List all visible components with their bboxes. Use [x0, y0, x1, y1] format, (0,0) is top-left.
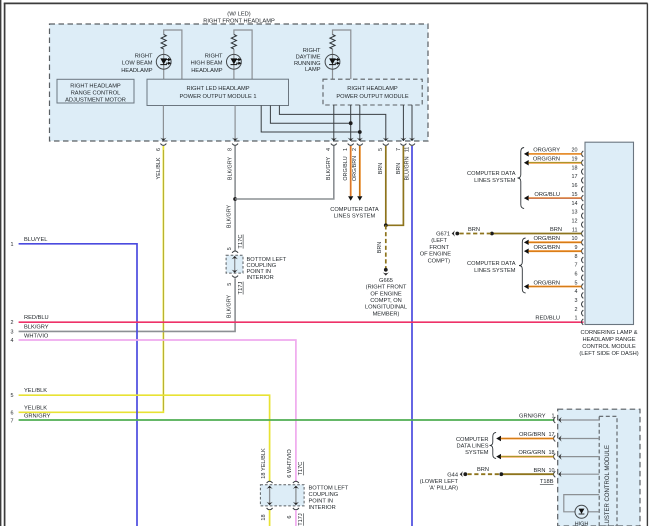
- svg-text:3: 3: [575, 298, 578, 304]
- svg-text:(RIGHT FRONT: (RIGHT FRONT: [366, 285, 407, 291]
- svg-text:CORNERING LAMP &: CORNERING LAMP &: [580, 330, 637, 336]
- svg-text:2: 2: [352, 148, 358, 151]
- wire module1 pin to ORG/BRN-2 drop: [261, 106, 360, 133]
- junction BLK/GRY: [233, 197, 237, 201]
- bottom left coupling point box 1: [226, 255, 287, 281]
- svg-text:BRN: BRN: [468, 227, 480, 233]
- junction ORG/BRN-2: [358, 130, 362, 134]
- wire BRN dashed to G44: [468, 467, 502, 474]
- wire BRN pin11 solid: [492, 232, 582, 234]
- svg-text:ORG/BRN: ORG/BRN: [519, 432, 546, 438]
- cluster pin 1 crossing: [519, 414, 599, 424]
- svg-text:12: 12: [572, 218, 578, 224]
- svg-text:BLK/GRY: BLK/GRY: [226, 294, 232, 318]
- svg-text:(LEFT: (LEFT: [431, 238, 447, 244]
- wire module1 pin 8 drop: [234, 106, 236, 142]
- wire 2 RED/BLU: [11, 315, 584, 326]
- svg-text:LINES SYSTEM: LINES SYSTEM: [474, 268, 516, 274]
- wire BRN pin7 branch: [386, 146, 404, 225]
- wire high-beam indicator loop: [564, 495, 599, 512]
- svg-text:YEL/BLK: YEL/BLK: [24, 388, 47, 394]
- svg-text:RUNNING: RUNNING: [294, 61, 321, 67]
- svg-text:BLK/GRY: BLK/GRY: [326, 156, 332, 180]
- wire ORG/BRN pin5: [524, 280, 582, 289]
- resistor low-beam: [161, 35, 166, 50]
- ground G671: [420, 230, 459, 264]
- svg-text:COMPUTER DATA: COMPUTER DATA: [467, 261, 516, 267]
- wire BRN dashed to G665: [377, 225, 386, 268]
- svg-text:GRN/GRY: GRN/GRY: [24, 414, 51, 420]
- svg-text:HEADLAMP RANGE: HEADLAMP RANGE: [583, 337, 636, 343]
- svg-text:LINES SYSTEM: LINES SYSTEM: [334, 214, 376, 220]
- svg-text:LOW BEAM: LOW BEAM: [122, 61, 153, 67]
- junction BRN G665: [384, 223, 388, 227]
- wire ORG/BRN pin10: [524, 236, 582, 245]
- svg-text:DAYTIME: DAYTIME: [296, 54, 321, 60]
- svg-text:RIGHT: RIGHT: [303, 48, 321, 54]
- svg-text:1: 1: [11, 242, 14, 248]
- wire right-module pin 2 drop: [359, 105, 361, 141]
- svg-text:18 YEL/BLK: 18 YEL/BLK: [261, 448, 267, 479]
- LED right high beam headlamp: [191, 53, 242, 74]
- junction BRN pin11: [490, 232, 494, 236]
- wire module1 pin to BRN-5 drop: [279, 106, 385, 142]
- label computer data lines system lower: [467, 261, 516, 274]
- wire 3 BLK/GRY label: [11, 325, 49, 336]
- svg-text:7: 7: [575, 263, 578, 269]
- svg-text:LAMP: LAMP: [305, 67, 321, 73]
- svg-text:4: 4: [326, 148, 332, 151]
- svg-text:HEADLAMP: HEADLAMP: [191, 68, 222, 74]
- wire low-beam LED loop: [164, 30, 182, 79]
- svg-text:BRN: BRN: [550, 227, 562, 233]
- connector crossing headlamp pin 11: [404, 138, 415, 181]
- instrument cluster outer box: [558, 409, 640, 526]
- svg-text:ORG/BRN: ORG/BRN: [533, 245, 560, 251]
- svg-text:20: 20: [572, 148, 578, 154]
- svg-text:RIGHT LED HEADLAMP: RIGHT LED HEADLAMP: [186, 86, 249, 92]
- wire ORG/GRY pin20: [524, 148, 582, 157]
- svg-text:5: 5: [227, 283, 233, 286]
- svg-text:ORG/BRN: ORG/BRN: [533, 280, 560, 286]
- svg-text:2: 2: [575, 307, 578, 313]
- svg-text:6: 6: [11, 410, 14, 416]
- inline coupling T17C lower-left: [261, 448, 304, 483]
- svg-text:1: 1: [575, 316, 578, 322]
- wire ORG/BLU pin15: [524, 192, 582, 201]
- svg-text:POWER OUTPUT MODULE 1: POWER OUTPUT MODULE 1: [179, 94, 256, 100]
- svg-text:RIGHT: RIGHT: [205, 53, 223, 59]
- svg-text:DATA LINES: DATA LINES: [456, 444, 488, 450]
- wire high-beam LED loop: [234, 30, 252, 79]
- right headlamp range control adjustment motor box: [57, 79, 134, 103]
- svg-text:MEMBER): MEMBER): [373, 311, 400, 317]
- svg-text:COMPUTER DATA: COMPUTER DATA: [330, 207, 379, 213]
- svg-text:ADJUSTMENT MOTOR: ADJUSTMENT MOTOR: [65, 97, 126, 103]
- ground G44: [420, 471, 467, 491]
- LED right daytime running lamp: [294, 48, 340, 73]
- label BLK/GRY mid: [226, 204, 232, 228]
- svg-text:POWER OUTPUT MODULE: POWER OUTPUT MODULE: [336, 94, 408, 100]
- svg-text:YEL/BLK: YEL/BLK: [24, 406, 47, 412]
- svg-text:13: 13: [572, 210, 578, 216]
- svg-text:OF ENGINE: OF ENGINE: [420, 252, 451, 258]
- wire ORG/GRN cluster pin18: [496, 454, 553, 459]
- wire 6 YEL/BLK label: [11, 406, 48, 417]
- svg-text:5: 5: [575, 280, 578, 286]
- svg-text:15: 15: [572, 192, 578, 198]
- indicator lamp high beam: [575, 505, 589, 526]
- cornering module pins 1-20: [572, 148, 584, 325]
- svg-text:RED/BLU: RED/BLU: [535, 316, 560, 322]
- svg-text:18: 18: [261, 514, 267, 520]
- wire right-module pin 7 drop: [402, 105, 404, 141]
- svg-text:COMPUTER DATA: COMPUTER DATA: [467, 171, 516, 177]
- svg-text:6: 6: [575, 271, 578, 277]
- svg-text:14: 14: [572, 201, 578, 207]
- svg-text:5: 5: [11, 393, 14, 399]
- wire BRN cluster pin10 solid: [501, 474, 553, 485]
- svg-text:RIGHT HEADLAMP: RIGHT HEADLAMP: [70, 83, 121, 89]
- connector crossing headlamp pin 5: [378, 138, 389, 175]
- svg-text:5: 5: [378, 148, 384, 151]
- svg-text:OF ENGINE: OF ENGINE: [370, 291, 401, 297]
- svg-text:BLU/YEL: BLU/YEL: [24, 237, 47, 243]
- wire 4 WHT/VIO: [11, 333, 296, 481]
- svg-text:HIGH BEAM: HIGH BEAM: [191, 61, 223, 67]
- svg-text:BRN: BRN: [396, 163, 402, 174]
- svg-text:GRN/GRY: GRN/GRY: [519, 414, 546, 420]
- wire ORG/BRN pin2 stub: [357, 146, 362, 201]
- svg-text:ORG/GRN: ORG/GRN: [518, 450, 545, 456]
- wire right-module pin 1 drop: [350, 105, 352, 141]
- svg-text:WHT/VIO: WHT/VIO: [24, 333, 49, 339]
- svg-text:INSTRUMENT CLUSTER CONTROL MOD: INSTRUMENT CLUSTER CONTROL MODULE: [605, 445, 611, 526]
- resistor daytime running lamp: [330, 35, 335, 50]
- svg-text:T18B: T18B: [540, 479, 554, 485]
- wire right-module pin 4 drop: [333, 105, 335, 141]
- svg-text:LONGITUDINAL: LONGITUDINAL: [365, 305, 407, 311]
- junction ORG/BLU-1: [349, 121, 353, 125]
- svg-text:6: 6: [287, 515, 293, 518]
- cluster pin 18 crossing: [518, 450, 599, 460]
- svg-text:COMPUTER: COMPUTER: [456, 437, 489, 443]
- brace computer data lines cluster: [490, 432, 497, 458]
- wire ORG/GRN pin19: [524, 157, 582, 166]
- svg-text:(W/ LED): (W/ LED): [227, 11, 250, 17]
- wire right-module pin 11 drop: [411, 105, 413, 141]
- wire YEL/BLK pin6 vertical: [19, 146, 164, 412]
- svg-text:RANGE CONTROL: RANGE CONTROL: [71, 90, 121, 96]
- svg-text:HEADLAMP: HEADLAMP: [121, 68, 152, 74]
- connector crossing headlamp pin 6: [156, 138, 167, 180]
- svg-text:5: 5: [227, 247, 233, 250]
- svg-text:2: 2: [11, 320, 14, 326]
- svg-text:BLK/GRY: BLK/GRY: [226, 204, 232, 228]
- svg-text:BLU/GRN: BLU/GRN: [404, 156, 410, 180]
- wire module1 pin to ORG/BLU-1 drop: [270, 106, 350, 124]
- wire 7 GRN/GRY: [11, 414, 555, 425]
- svg-text:BRN: BRN: [533, 468, 545, 474]
- connector crossing headlamp pin 8: [228, 138, 239, 181]
- svg-text:ORG/BRN: ORG/BRN: [533, 236, 560, 242]
- svg-text:10: 10: [549, 468, 555, 474]
- svg-text:6: 6: [156, 148, 162, 151]
- svg-text:T17J: T17J: [238, 281, 244, 294]
- bottom left coupling point box 2: [260, 485, 348, 512]
- wire BLK/GRY pin4 branch: [235, 146, 334, 199]
- svg-text:'A' PILLAR): 'A' PILLAR): [429, 485, 458, 491]
- svg-text:11: 11: [572, 227, 578, 233]
- inline coupling T17J lower: [227, 276, 244, 295]
- svg-text:17: 17: [549, 432, 555, 438]
- svg-text:BRN: BRN: [477, 467, 489, 473]
- wire ORG/BLU pin1 stub: [348, 146, 353, 201]
- svg-text:YEL/BLK: YEL/BLK: [156, 157, 162, 179]
- svg-text:BRN: BRN: [378, 163, 384, 174]
- connector crossing headlamp pin 4: [326, 138, 337, 181]
- svg-text:1: 1: [343, 148, 349, 151]
- svg-text:T17J: T17J: [298, 513, 304, 526]
- wire 1 BLU/YEL: [11, 237, 138, 526]
- svg-text:SYSTEM: SYSTEM: [465, 450, 489, 456]
- svg-text:COMPT, ON: COMPT, ON: [370, 298, 402, 304]
- inline coupling T17J lower-2: [261, 508, 304, 526]
- svg-text:4: 4: [575, 289, 578, 295]
- label computer data lines system (headlamp): [330, 207, 379, 220]
- label RED/BLU pin1: [535, 316, 560, 322]
- brace computer data lines upper: [518, 148, 525, 209]
- svg-text:18: 18: [572, 165, 578, 171]
- svg-text:11: 11: [404, 147, 410, 153]
- cluster pin 17 crossing: [519, 432, 599, 442]
- right front headlamp assembly box: [50, 11, 429, 141]
- svg-text:HIGH: HIGH: [575, 521, 589, 526]
- svg-text:G665: G665: [379, 278, 393, 284]
- svg-text:ORG/BRN: ORG/BRN: [352, 156, 358, 181]
- svg-text:T17C: T17C: [298, 462, 304, 476]
- label computer data lines system upper: [467, 171, 516, 184]
- svg-text:7: 7: [396, 148, 402, 151]
- svg-text:ORG/GRY: ORG/GRY: [533, 148, 560, 154]
- instrument cluster inner module box: [599, 416, 617, 526]
- inline coupling T17C upper: [227, 234, 244, 252]
- cluster pin 10 crossing: [533, 468, 599, 478]
- svg-text:G671: G671: [436, 231, 450, 237]
- wire BLU/GRN pin11 vertical: [411, 146, 413, 526]
- svg-text:19: 19: [572, 157, 578, 163]
- resistor high-beam: [231, 35, 236, 50]
- svg-text:INTERIOR: INTERIOR: [247, 275, 274, 281]
- connector crossing headlamp pin 7: [396, 138, 407, 175]
- svg-text:7: 7: [11, 418, 14, 424]
- svg-text:18: 18: [549, 450, 555, 456]
- label computer data lines system cluster: [456, 437, 489, 456]
- svg-text:9: 9: [575, 245, 578, 251]
- brace computer data lines lower: [519, 238, 526, 293]
- svg-text:8: 8: [228, 148, 234, 151]
- label cornering module caption: [579, 330, 638, 357]
- svg-text:COMPT): COMPT): [428, 258, 451, 264]
- LED right low beam headlamp: [121, 53, 171, 74]
- wire module1 pin 6 drop: [162, 106, 164, 142]
- svg-text:G44: G44: [447, 472, 458, 478]
- svg-text:T17C: T17C: [238, 234, 244, 248]
- wire 5 YEL/BLK: [11, 388, 270, 481]
- svg-text:LINES SYSTEM: LINES SYSTEM: [474, 178, 516, 184]
- connector crossing headlamp pin 1: [343, 138, 354, 181]
- svg-text:RED/BLU: RED/BLU: [24, 315, 49, 321]
- svg-text:3: 3: [11, 329, 14, 335]
- svg-text:RIGHT HEADLAMP: RIGHT HEADLAMP: [347, 86, 398, 92]
- svg-text:POINT IN: POINT IN: [309, 499, 334, 505]
- svg-text:ORG/BLU: ORG/BLU: [343, 156, 349, 180]
- cornering lamp module box: [585, 142, 634, 324]
- svg-text:(LEFT SIDE OF DASH): (LEFT SIDE OF DASH): [579, 351, 638, 357]
- svg-text:1: 1: [552, 414, 555, 420]
- svg-text:RIGHT FRONT HEADLAMP: RIGHT FRONT HEADLAMP: [203, 18, 275, 24]
- svg-text:CONTROL MODULE: CONTROL MODULE: [582, 344, 636, 350]
- svg-text:16: 16: [572, 183, 578, 189]
- svg-text:ORG/GRN: ORG/GRN: [533, 157, 560, 163]
- svg-text:BRN: BRN: [377, 242, 383, 253]
- svg-text:BLK/GRY: BLK/GRY: [24, 325, 49, 331]
- junction BRN cluster: [499, 472, 503, 476]
- connector crossing headlamp pin 2: [352, 138, 363, 181]
- svg-text:8: 8: [575, 254, 578, 260]
- svg-text:4: 4: [11, 338, 14, 344]
- wire ORG/BRN cluster pin17: [496, 436, 553, 441]
- svg-text:10: 10: [572, 236, 578, 242]
- wire daytime-running-lamp LED loop: [333, 30, 351, 79]
- svg-text:6 WHT/VIO: 6 WHT/VIO: [287, 449, 293, 478]
- wire BRN dashed to G671: [460, 227, 563, 234]
- svg-text:INTERIOR: INTERIOR: [309, 505, 336, 511]
- svg-text:COUPLING: COUPLING: [309, 492, 339, 498]
- svg-text:(LOWER LEFT: (LOWER LEFT: [420, 479, 459, 485]
- wire BLK/GRY to line 3: [19, 278, 236, 331]
- svg-text:RIGHT: RIGHT: [135, 53, 153, 59]
- svg-text:17: 17: [572, 174, 578, 180]
- ground G665: [365, 268, 407, 318]
- right headlamp power output module box: [323, 79, 422, 105]
- right LED headlamp power output module 1 box: [147, 79, 289, 105]
- wire ORG/BRN pin9: [524, 245, 582, 254]
- wire BRN pin5 vertical: [385, 146, 387, 225]
- svg-text:ORG/BLU: ORG/BLU: [534, 192, 560, 198]
- svg-text:FRONT: FRONT: [429, 245, 449, 251]
- svg-text:BLK/GRY: BLK/GRY: [228, 156, 234, 180]
- label instrument cluster control module vertical: [605, 445, 611, 526]
- svg-text:BOTTOM LEFT: BOTTOM LEFT: [309, 486, 349, 492]
- wire BLK/GRY pin8 vertical: [234, 146, 236, 251]
